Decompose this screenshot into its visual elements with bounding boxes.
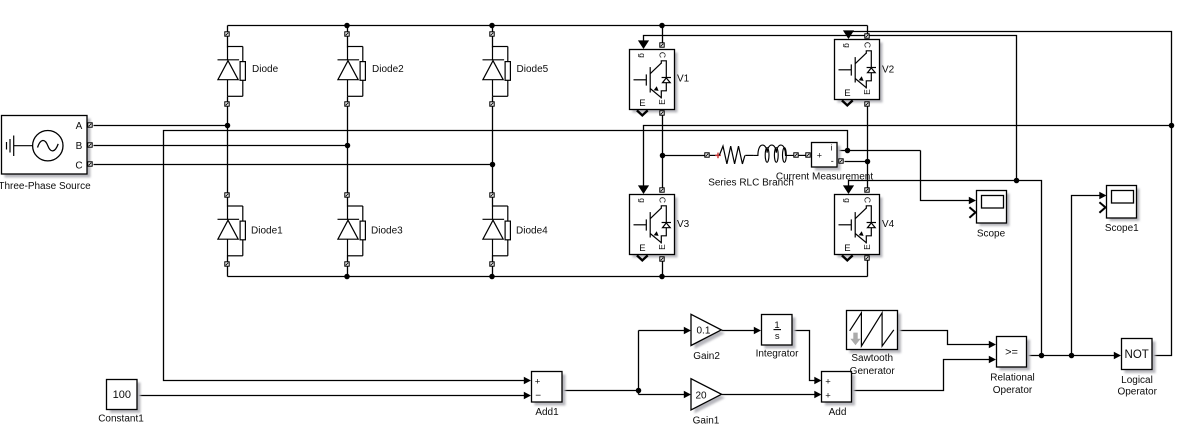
svg-text:V3: V3 bbox=[677, 219, 690, 230]
svg-text:Diode2: Diode2 bbox=[372, 64, 404, 75]
port V4 E bbox=[865, 256, 869, 260]
arrow gate V1 bbox=[638, 40, 649, 49]
svg-text:Current Measurement: Current Measurement bbox=[776, 172, 873, 183]
wire node RLC input bbox=[663, 155, 706, 157]
junction bottom bus at Diode3 bbox=[344, 274, 350, 280]
svg-text:A: A bbox=[76, 121, 83, 132]
port RLC left bbox=[705, 153, 709, 157]
wire gate feed V4 bbox=[849, 181, 1042, 356]
junction i output bbox=[845, 148, 851, 154]
svg-text:Generator: Generator bbox=[850, 366, 896, 377]
port V3 C bbox=[660, 188, 664, 192]
port CM plus bbox=[806, 153, 810, 157]
port V3 E bbox=[660, 257, 664, 261]
transistor V3 bbox=[630, 195, 678, 261]
svg-text:+: + bbox=[817, 151, 822, 161]
svg-text:s: s bbox=[775, 331, 780, 342]
wire phase B bbox=[94, 145, 348, 147]
arrow into RelOp first bbox=[989, 341, 996, 349]
gray arrow glyph bbox=[850, 333, 860, 346]
svg-text:V4: V4 bbox=[882, 219, 895, 230]
sum Add bbox=[822, 372, 856, 406]
ground symbol bbox=[7, 136, 33, 157]
wire V2 emitter to V4 collector bbox=[867, 107, 869, 189]
junction gate net bbox=[1014, 178, 1020, 184]
svg-text:V1: V1 bbox=[677, 74, 690, 85]
arrow gate V4 bbox=[843, 185, 854, 194]
arrow into Scope1 bbox=[1099, 192, 1106, 200]
wire gate feed V1 from node G1 bbox=[644, 36, 1017, 181]
wire column Diode/Diode1 bbox=[227, 26, 229, 33]
arrow into Gain2 bbox=[684, 327, 691, 335]
port Diode1 cathode bbox=[225, 262, 229, 266]
junction top bus at Diode5 bbox=[489, 23, 495, 29]
wire current measurement i output bbox=[838, 150, 921, 152]
transistor V2 bbox=[835, 40, 883, 106]
svg-text:Gain2: Gain2 bbox=[693, 351, 720, 362]
wire gate feed V2 from NOT bbox=[849, 32, 1172, 356]
svg-text:Three-Phase Source: Three-Phase Source bbox=[0, 181, 91, 192]
wire i feedback to Add1 bbox=[164, 131, 848, 381]
svg-text:Diode3: Diode3 bbox=[371, 226, 403, 237]
svg-text:+: + bbox=[825, 390, 831, 401]
wire Constant1 to Add1 bbox=[138, 395, 526, 397]
junction NOT net bbox=[1169, 123, 1175, 129]
current measurement CM bbox=[812, 142, 841, 170]
port CM minus bbox=[839, 159, 843, 163]
port Diode anode bbox=[225, 32, 229, 36]
wire V3 emitter to bus bbox=[662, 262, 664, 277]
svg-text:Relational: Relational bbox=[990, 373, 1034, 384]
wire V2 collector bbox=[867, 26, 869, 35]
integrator 1/s bbox=[762, 315, 796, 349]
diode Diode bbox=[218, 47, 246, 97]
port Diode4 anode bbox=[490, 193, 494, 197]
relational operator >= bbox=[997, 337, 1031, 371]
wire Add to Relational Operator bbox=[852, 360, 991, 391]
svg-text:+: + bbox=[535, 376, 541, 387]
arrow gate V2 bbox=[843, 30, 854, 39]
wire top DC bus bbox=[228, 25, 868, 27]
port RLC right bbox=[794, 153, 798, 157]
port Diode4 cathode bbox=[490, 262, 494, 266]
wire i to Scope bbox=[921, 151, 971, 201]
port V1 C bbox=[660, 43, 664, 47]
wire Relational Operator to NOT bbox=[1027, 355, 1116, 357]
port Diode cathode bbox=[225, 102, 229, 106]
arrow into Add second bbox=[814, 391, 821, 399]
junction RelOp out 1 bbox=[1039, 353, 1045, 359]
port Diode2 anode bbox=[345, 32, 349, 36]
svg-text:Logical: Logical bbox=[1121, 375, 1153, 386]
svg-text:Add1: Add1 bbox=[535, 407, 559, 418]
svg-text:NOT: NOT bbox=[1125, 349, 1149, 361]
port V2 E bbox=[865, 102, 869, 106]
svg-text:Diode5: Diode5 bbox=[517, 64, 549, 75]
port A bbox=[88, 123, 92, 127]
wire Add1 output branch bbox=[563, 390, 639, 392]
svg-text:-: - bbox=[831, 156, 834, 166]
gain Gain1 bbox=[691, 379, 725, 414]
scope Scope bbox=[969, 191, 1009, 227]
junction phase C bbox=[490, 162, 496, 168]
wire RLC to CM bbox=[799, 154, 806, 156]
diode Diode4 bbox=[483, 206, 511, 256]
svg-text:0.1: 0.1 bbox=[697, 325, 711, 336]
junction phase A bbox=[225, 123, 231, 129]
junction Add1 output bbox=[636, 388, 642, 394]
junction top bus at V1 bbox=[659, 23, 665, 29]
arrow gate V3 bbox=[638, 185, 649, 194]
inductor L bbox=[753, 145, 793, 162]
port Diode5 cathode bbox=[490, 102, 494, 106]
svg-text:Diode1: Diode1 bbox=[251, 226, 283, 237]
wire V4 emitter to bus bbox=[867, 261, 869, 277]
diode Diode2 bbox=[338, 47, 366, 97]
wire Gain2 to Integrator bbox=[722, 330, 756, 332]
arrow into NOT bbox=[1114, 352, 1121, 360]
svg-text:Scope1: Scope1 bbox=[1105, 223, 1139, 234]
svg-text:>=: >= bbox=[1005, 346, 1018, 358]
arrow into RelOp second bbox=[989, 356, 996, 364]
svg-text:100: 100 bbox=[113, 389, 131, 401]
diode Diode1 bbox=[218, 206, 246, 256]
svg-text:+: + bbox=[825, 376, 831, 387]
port V2 C bbox=[865, 34, 869, 38]
arrow into Gain1 bbox=[684, 391, 691, 399]
junction top bus at Diode2 bbox=[344, 23, 350, 29]
svg-text:C: C bbox=[75, 160, 82, 171]
constant Constant1 bbox=[107, 380, 141, 414]
port Diode3 anode bbox=[345, 193, 349, 197]
logical operator NOT bbox=[1122, 339, 1156, 374]
scope Scope1 bbox=[1099, 186, 1139, 222]
junction RelOp out 2 bbox=[1069, 353, 1075, 359]
junction minus tap bbox=[865, 159, 871, 165]
svg-text:B: B bbox=[76, 141, 83, 152]
wire V1 collector bbox=[662, 26, 664, 44]
wire phase A bbox=[94, 125, 228, 127]
port Diode1 anode bbox=[225, 193, 229, 197]
sum Add1 bbox=[532, 372, 566, 406]
svg-text:Integrator: Integrator bbox=[756, 349, 799, 360]
junction RLC tap bbox=[660, 153, 666, 159]
wire column Diode5/Diode4 bbox=[492, 26, 494, 33]
svg-text:Add: Add bbox=[829, 407, 847, 418]
diode Diode5 bbox=[483, 47, 511, 97]
svg-text:Gain1: Gain1 bbox=[693, 416, 720, 427]
sawtooth generator bbox=[847, 311, 902, 354]
wire V1 emitter to V3 collector bbox=[662, 116, 664, 189]
transistor V4 bbox=[835, 195, 883, 261]
svg-text:Operator: Operator bbox=[993, 385, 1033, 396]
AC source circle bbox=[33, 131, 63, 161]
wire phase C bbox=[94, 164, 493, 166]
wire column Diode2/Diode3 bbox=[347, 26, 349, 33]
svg-text:Diode4: Diode4 bbox=[516, 226, 548, 237]
wire Integrator to Add bbox=[793, 331, 816, 381]
svg-text:Diode: Diode bbox=[252, 64, 279, 75]
port B bbox=[88, 143, 92, 147]
wire Sawtooth to Relational Operator bbox=[898, 331, 991, 345]
arrow into Add1 minus bbox=[524, 392, 531, 400]
port V1 E bbox=[660, 111, 664, 115]
junction phase B bbox=[345, 143, 351, 149]
port Diode2 cathode bbox=[345, 102, 349, 106]
svg-text:Operator: Operator bbox=[1117, 387, 1157, 398]
svg-text:−: − bbox=[535, 390, 541, 401]
resistor R bbox=[719, 146, 745, 164]
value + polarity mark bbox=[715, 153, 721, 159]
wire bottom DC bus bbox=[228, 276, 868, 278]
arrow into Add first bbox=[814, 377, 821, 385]
gain Gain2 bbox=[691, 314, 725, 349]
port C bbox=[88, 162, 92, 166]
diode Diode3 bbox=[338, 206, 366, 256]
svg-text:i: i bbox=[831, 142, 833, 152]
junction bottom bus at Diode4 bbox=[489, 274, 495, 280]
arrow into Add1 plus bbox=[524, 377, 531, 385]
svg-text:Scope: Scope bbox=[977, 229, 1006, 240]
wire current measurement minus bbox=[845, 161, 868, 163]
three-phase source U1 bbox=[2, 116, 91, 178]
svg-text:20: 20 bbox=[696, 390, 708, 401]
junction bottom bus at V3 bbox=[659, 274, 665, 280]
port Diode3 cathode bbox=[345, 262, 349, 266]
arrow into Scope bbox=[969, 197, 976, 205]
port V4 C bbox=[865, 188, 869, 192]
wire Gain1 to Add bbox=[722, 394, 816, 396]
svg-text:Sawtooth: Sawtooth bbox=[851, 353, 893, 364]
svg-text:V2: V2 bbox=[882, 65, 895, 76]
wire Relational Operator to Scope1 bbox=[1072, 196, 1101, 356]
port Diode5 anode bbox=[490, 32, 494, 36]
series RLC branch bbox=[710, 145, 794, 164]
transistor V1 bbox=[630, 50, 678, 116]
svg-text:Constant1: Constant1 bbox=[98, 413, 144, 424]
wire gate feed V3 from NOT net bbox=[644, 126, 1172, 187]
arrow into Integrator bbox=[754, 327, 761, 335]
